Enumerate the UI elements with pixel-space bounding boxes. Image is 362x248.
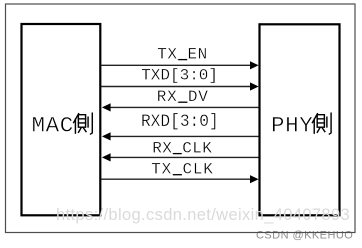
arrowhead RX_CLK (102, 153, 111, 161)
glyph CE (Chinese character on MAC box) (74, 113, 93, 134)
wire RXD[3:0] (PHY to MAC) (110, 135, 259, 137)
label TX_EN underscore stroke (178, 59, 187, 61)
wire TX_EN (MAC to PHY) (101, 64, 251, 66)
svg-text:TX_CLK: TX_CLK (151, 161, 213, 179)
arrowhead TX_EN (250, 61, 259, 69)
MAC block (left box) (22, 24, 101, 215)
label RX_DV underscore stroke (178, 101, 187, 103)
svg-text:TXD[3:0]: TXD[3:0] (141, 66, 218, 84)
svg-text:TX_EN: TX_EN (157, 46, 208, 64)
svg-text:RX_CLK: RX_CLK (152, 140, 212, 158)
svg-text:RX_DV: RX_DV (157, 88, 209, 106)
label TX_CLK underscore stroke (173, 174, 182, 176)
arrowhead TXD[3:0] (250, 82, 259, 90)
svg-text:PHY: PHY (271, 112, 313, 138)
svg-text:https://blog.csdn.net/weixin_4: https://blog.csdn.net/weixin_40407893 (56, 206, 350, 224)
wire RX_CLK (PHY to MAC) (110, 156, 259, 158)
label RX_CLK underscore stroke (173, 153, 182, 155)
PHY block (right box) (260, 24, 340, 215)
wire TXD[3:0] (MAC to PHY) (101, 86, 251, 88)
arrowhead RXD[3:0] (102, 132, 111, 140)
arrowhead TX_CLK (250, 175, 259, 183)
glyph CE (Chinese character on PHY box) (312, 113, 331, 134)
svg-text:MAC: MAC (32, 112, 74, 138)
svg-text:RXD[3:0]: RXD[3:0] (141, 113, 219, 133)
wire TX_CLK (MAC to PHY) (101, 178, 251, 180)
wire RX_DV (PHY to MAC) (110, 106, 259, 108)
svg-text:CSDN @KKEHUO: CSDN @KKEHUO (256, 230, 353, 242)
arrowhead RX_DV (102, 103, 111, 111)
